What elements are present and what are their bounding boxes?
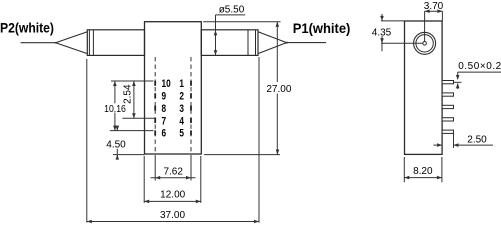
svg-text:8.20: 8.20 [413,166,433,177]
svg-text:2.50: 2.50 [467,135,487,146]
svg-text:5: 5 [179,128,184,140]
svg-text:9: 9 [162,90,167,102]
svg-text:10: 10 [162,78,171,90]
svg-text:4.50: 4.50 [106,140,126,151]
svg-text:3: 3 [179,103,184,115]
svg-text:ø5.50: ø5.50 [219,4,245,15]
svg-text:2: 2 [179,90,184,102]
svg-text:10.16: 10.16 [104,103,126,114]
svg-text:P2(white): P2(white) [0,20,54,36]
svg-text:2.54: 2.54 [123,84,134,104]
svg-text:0.50×0.2: 0.50×0.2 [458,61,501,72]
svg-text:7: 7 [162,115,167,127]
svg-text:1: 1 [179,78,184,90]
svg-text:7.62: 7.62 [163,166,183,177]
svg-text:4.35: 4.35 [372,28,392,39]
svg-text:12.00: 12.00 [160,190,185,201]
svg-text:8: 8 [162,103,167,115]
svg-text:3.70: 3.70 [424,1,444,12]
svg-text:4: 4 [179,115,184,127]
svg-text:37.00: 37.00 [160,210,185,221]
svg-text:6: 6 [162,128,167,140]
svg-text:P1(white): P1(white) [293,21,351,36]
svg-text:27.00: 27.00 [266,84,291,95]
